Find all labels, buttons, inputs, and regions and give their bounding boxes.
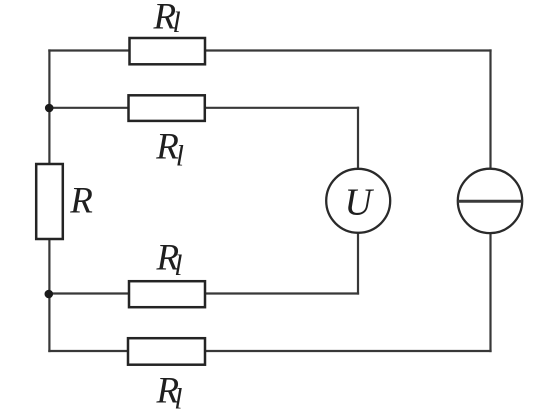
label Rl (row2) <box>155 127 184 173</box>
voltmeter U (circle) <box>326 169 390 233</box>
svg-text:U: U <box>345 182 375 224</box>
svg-text:l: l <box>176 141 184 173</box>
junction node top-left <box>45 104 54 113</box>
svg-text:l: l <box>173 7 181 39</box>
wire top horizontal <box>49 49 490 51</box>
wire bottom horizontal <box>49 350 490 352</box>
wire right vertical lower <box>489 233 491 351</box>
svg-text:l: l <box>174 383 182 415</box>
wire row3 horizontal <box>49 292 358 294</box>
wire left vertical <box>48 51 50 352</box>
wire U branch lower <box>357 233 359 294</box>
resistor R (vertical, left branch) <box>36 164 63 239</box>
resistor Rl row2 <box>129 95 205 121</box>
label Rl (row4) <box>156 371 183 416</box>
wire row2 horizontal <box>49 107 358 109</box>
wire right vertical upper <box>489 51 491 170</box>
resistor Rl top (row1) <box>130 38 206 64</box>
svg-text:R: R <box>69 181 93 222</box>
current source (circle with horizontal bar) <box>458 169 522 233</box>
junction node bottom-left <box>45 290 54 299</box>
wire U branch upper <box>357 108 359 169</box>
resistor Rl row3 <box>129 281 205 307</box>
label Rl (row1) <box>153 0 181 39</box>
label Rl (row3) <box>156 237 183 281</box>
svg-text:l: l <box>174 250 182 282</box>
resistor Rl bottom (row4) <box>128 338 205 365</box>
